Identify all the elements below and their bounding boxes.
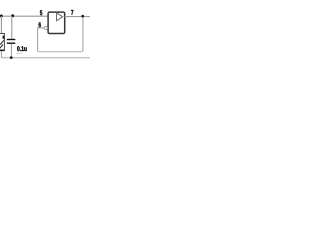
wire down from node B to capacitor — [11, 16, 13, 39]
node D junction dot on ground rail — [10, 56, 13, 59]
value label 0.1u — [17, 46, 26, 51]
wire output pin 7 horizontal — [65, 16, 90, 18]
crystal Y1 (cut off at left edge) — [0, 34, 5, 52]
wire below capacitor down to ground rail — [10, 44, 12, 58]
buffer triangle inside U1 — [57, 13, 63, 21]
wire feedback right vertical — [82, 16, 84, 50]
capacitor C1 bottom plate — [7, 43, 15, 44]
inverting input bubble on U1 — [44, 26, 47, 29]
pin label 6 — [39, 22, 41, 27]
tiny net label marks on ground rail — [17, 53, 22, 54]
node B junction dot — [11, 14, 14, 17]
ground rail wire across bottom — [2, 57, 90, 59]
op-amp U1 body box — [48, 12, 65, 33]
wire pin 6 horizontal — [38, 27, 45, 29]
pin label 7 — [71, 10, 73, 15]
wire down from node A to crystal — [0, 16, 2, 34]
node A junction dot left edge — [0, 15, 3, 18]
wire below crystal down to ground rail (with corner) — [1, 51, 2, 58]
wire top-left horizontal (pin 5 net) — [0, 15, 48, 17]
capacitor C1 top plate — [7, 39, 15, 40]
wire feedback left vertical — [37, 27, 39, 50]
pin label 5 — [40, 10, 42, 15]
wire feedback bottom horizontal with rounded corners — [38, 50, 83, 51]
node C junction dot on output — [81, 15, 84, 18]
